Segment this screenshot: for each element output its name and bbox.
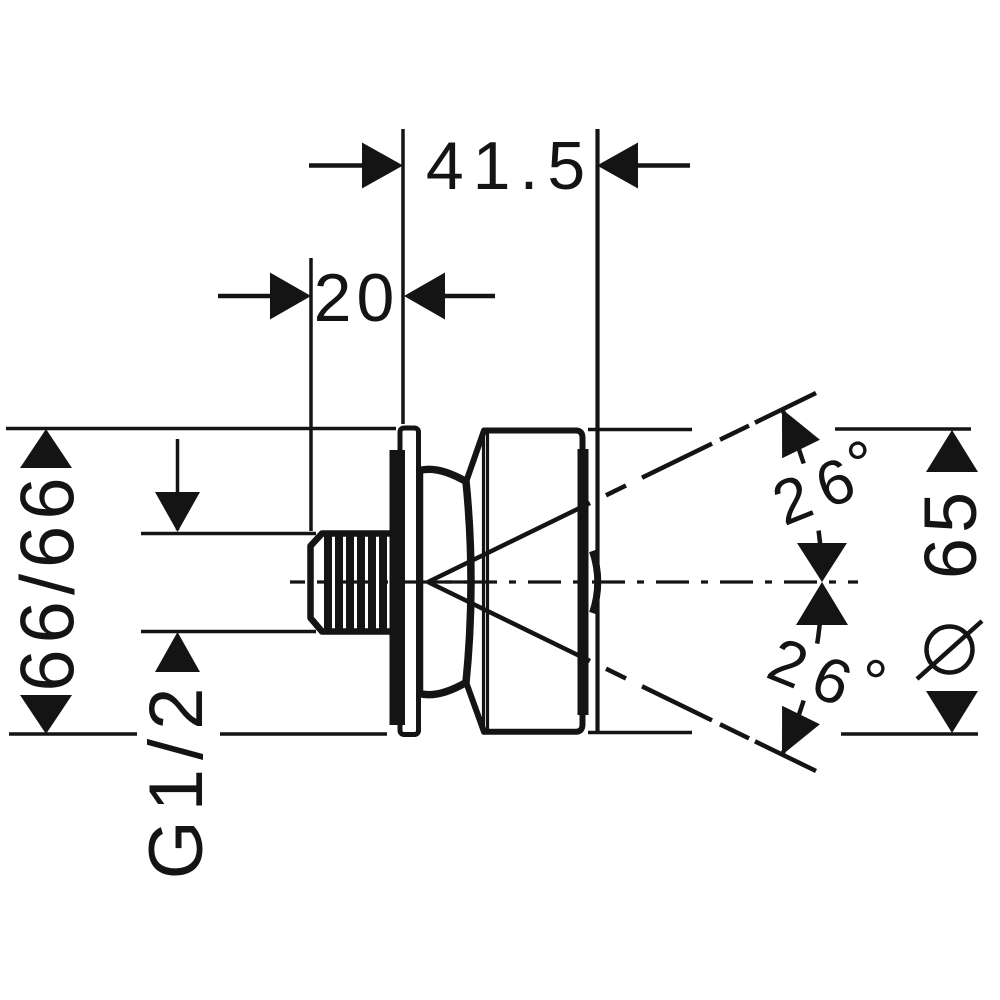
head inner silhouette line [486,432,489,730]
upper angle arc inner segment [819,531,822,576]
dimension 20 left arrow [270,273,311,320]
lower angle arc arrow at ray [782,706,820,755]
diameter symbol circle [927,627,973,673]
bottom extension line far left segment [9,732,137,736]
diameter symbol slash [917,621,982,679]
spray face front line [578,449,589,715]
dimension 20 right arrow [404,273,445,320]
dimension dia 65 top arrow [926,430,978,472]
thread bottom extension line [141,630,316,634]
upper 26 degree ray (solid then dash-dot) [428,393,816,582]
thread hatch lines [328,536,383,629]
bottom extension line right segment [841,732,978,736]
dimension 41.5 right arrow [597,143,638,189]
bottom extension line middle segment [588,731,692,735]
lower angle arc outer segment [782,701,804,755]
lower 26 degree ray (solid then dash-dot) [428,582,816,771]
lower angle arc inner segment [817,589,822,644]
top extension line middle segment [588,428,692,432]
thread top extension line [141,532,316,536]
dimension 66/66 top arrow [20,429,72,468]
svg-text:G1/2: G1/2 [134,679,219,880]
centerline solid patch at vertex [430,580,467,583]
face center lens arc [593,551,598,613]
extension line at wall plane [401,129,405,424]
dimension G1/2 upper leader line [176,439,180,530]
top extension line right segment [835,427,971,431]
dimension 41.5 left arrow [362,143,403,189]
wall escutcheon plate [400,428,419,735]
svg-text:20: 20 [314,260,400,336]
dimension dia 65 bottom arrow [926,691,978,733]
cone base edge line [482,432,485,730]
bowtie arrow below centerline [796,582,848,625]
svg-text:66/66: 66/66 [6,471,91,691]
dimension 20 left tail line [218,294,273,299]
svg-text:65: 65 [909,487,992,579]
svg-text:41.5: 41.5 [426,128,594,204]
dimension G1/2 lower arrow [155,632,200,672]
coupling neck barrel [420,469,472,694]
spray head body with rear cone [466,431,583,732]
extension line at spray face [595,129,599,732]
bottom extension line left segment [220,732,387,736]
dimension G1/2 upper arrow [155,492,200,532]
horizontal centerline (dash-dot) [290,580,858,583]
upper angle arc arrow at ray [782,409,820,458]
dimension 66/66 bottom arrow [20,695,72,734]
dimension 41.5 left tail line [309,163,365,168]
bowtie arrow above centerline [797,543,847,582]
extension line at thread tip [309,258,313,531]
threaded stub G1/2 outline [311,534,399,632]
rear flange strip [390,450,406,725]
upper angle arc outer segment [782,409,804,463]
dimension 20 right tail line [442,294,495,299]
dimension 41.5 right tail line [635,163,690,168]
top extension line left segment [6,427,396,431]
